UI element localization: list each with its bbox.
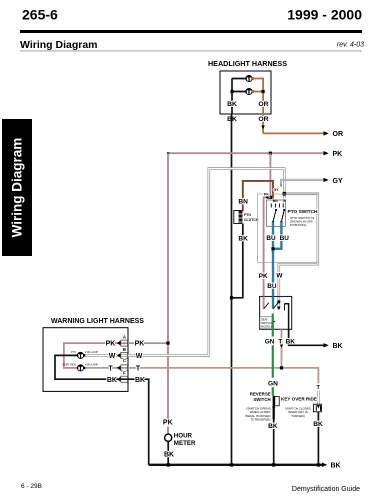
svg-text:PK: PK xyxy=(333,151,343,158)
arrow PK pin tick xyxy=(265,196,268,200)
arrow GY margin xyxy=(324,178,329,182)
svg-text:Wiring Diagram: Wiring Diagram xyxy=(10,138,25,238)
arrow BK pin xyxy=(117,377,121,381)
lamp warning 2 xyxy=(77,364,85,371)
svg-text:6 - 29B: 6 - 29B xyxy=(21,483,42,490)
svg-text:BK: BK xyxy=(227,101,237,108)
wire GN seat output xyxy=(272,329,274,336)
svg-text:GN: GN xyxy=(265,338,275,345)
wire BK key override to bus xyxy=(317,412,319,465)
wire PK warning pigtail xyxy=(129,342,168,344)
svg-text:OR: OR xyxy=(258,116,268,123)
arrow OR margin xyxy=(324,131,329,135)
node PK branch junction xyxy=(269,152,272,155)
svg-text:Demystification Guide: Demystification Guide xyxy=(292,486,360,493)
arrow PK margin xyxy=(324,151,329,155)
svg-text:REVERSE: REVERSE xyxy=(250,391,271,396)
svg-text:PTO: PTO xyxy=(244,213,251,217)
svg-text:BK: BK xyxy=(135,377,145,384)
svg-text:PK: PK xyxy=(264,193,269,197)
svg-text:MODULE: MODULE xyxy=(261,324,273,328)
node bus hour meter xyxy=(167,463,170,466)
arrow T seat tick xyxy=(280,345,283,348)
node PK pin junction xyxy=(269,196,272,199)
arrow OR down tick xyxy=(261,126,265,130)
svg-text:CLUTCH: CLUTCH xyxy=(244,218,259,222)
node bus main BK xyxy=(230,463,233,466)
svg-text:OR: OR xyxy=(258,101,268,108)
node T junction xyxy=(280,366,283,369)
svg-text:C: C xyxy=(123,358,126,363)
lamp warning 1 xyxy=(77,352,85,359)
svg-text:BK: BK xyxy=(268,423,278,430)
svg-text:HOUR: HOUR xyxy=(174,433,193,440)
svg-text:W: W xyxy=(109,353,116,360)
svg-text:rev. 4-03: rev. 4-03 xyxy=(337,42,364,49)
wire BK inside seat box xyxy=(285,304,289,330)
wire PK elbow to seat xyxy=(264,197,271,296)
arrow W pin xyxy=(117,353,121,357)
wire W inside warning harness xyxy=(84,354,129,356)
connector pin C xyxy=(121,358,128,371)
node W junction xyxy=(282,192,286,196)
wire BK warning to bus xyxy=(129,379,149,465)
wire BU right xyxy=(273,222,281,249)
svg-text:PK: PK xyxy=(163,419,173,426)
label reverse switch note xyxy=(245,407,271,422)
svg-text:BN: BN xyxy=(273,199,279,203)
svg-text:F: F xyxy=(123,370,126,375)
svg-text:265-6: 265-6 xyxy=(22,7,58,23)
svg-text:BN: BN xyxy=(238,199,248,206)
seat switch arm 1 xyxy=(264,303,269,309)
seat module label box xyxy=(260,317,273,329)
PTO switch arm 1 xyxy=(272,209,277,223)
lamp headlight 1 xyxy=(245,75,253,82)
svg-text:BK: BK xyxy=(238,235,248,242)
svg-text:PK: PK xyxy=(259,273,268,280)
wire GY to margin xyxy=(281,180,324,187)
wire BK ground bus xyxy=(149,464,322,466)
svg-text:PTO SWITCH: PTO SWITCH xyxy=(288,209,319,215)
svg-text:GN: GN xyxy=(268,380,278,387)
seat switch arm 2 xyxy=(273,303,278,309)
wire T into key override xyxy=(317,391,319,405)
wire PK horizontal to margin xyxy=(168,152,324,154)
wire BK reverse to bus xyxy=(273,420,275,465)
wire BU left xyxy=(272,222,274,297)
wire W warning lamp loop xyxy=(129,169,284,356)
arrow T pin xyxy=(117,366,121,370)
wire PK inside seat box xyxy=(263,297,265,309)
wire GN to reverse switch xyxy=(272,345,274,396)
wire PK inside warning harness xyxy=(64,343,129,368)
svg-text:#194 LAMP: #194 LAMP xyxy=(85,363,98,366)
svg-text:Wiring Diagram: Wiring Diagram xyxy=(20,39,98,51)
wire OR to right margin xyxy=(263,132,323,134)
svg-text:BK: BK xyxy=(331,463,341,470)
wire BK headlight feed xyxy=(232,79,246,115)
svg-text:WARNING LIGHT HARNESS: WARNING LIGHT HARNESS xyxy=(51,318,144,325)
node PK corner xyxy=(167,152,169,154)
svg-text:PK: PK xyxy=(106,341,116,348)
headlight harness box xyxy=(220,71,271,114)
svg-text:1999 - 2000: 1999 - 2000 xyxy=(287,7,362,23)
connector pin B xyxy=(121,347,128,358)
svg-text:A: A xyxy=(123,335,126,340)
node BU junction xyxy=(271,247,274,250)
seat switch arrow xyxy=(271,320,275,324)
wire BK inside warning harness xyxy=(55,355,129,379)
key override switch xyxy=(313,404,321,412)
wire T inside warning harness xyxy=(84,367,129,369)
svg-text:POSITION): POSITION) xyxy=(290,223,306,227)
header thick rule xyxy=(20,30,362,33)
svg-text:W: W xyxy=(136,353,143,360)
wire BK main vertical xyxy=(231,114,233,465)
svg-text:OVER RIDE: OVER RIDE xyxy=(62,363,76,366)
svg-text:BU: BU xyxy=(267,283,277,290)
wire BN clutch feed xyxy=(243,181,273,211)
PTO switch arm 2 xyxy=(280,209,285,223)
wire BK seat output to margin xyxy=(289,329,324,345)
svg-text:KEY OVER RIDE: KEY OVER RIDE xyxy=(281,396,317,401)
side tab banner xyxy=(2,119,32,256)
hour meter xyxy=(165,434,172,441)
svg-text:#194 LAMP: #194 LAMP xyxy=(85,351,98,354)
wire T horizontal run xyxy=(129,368,318,383)
wire PK hour meter stub xyxy=(167,427,169,435)
svg-text:PK: PK xyxy=(135,341,145,348)
PTO clutch coil xyxy=(234,211,243,224)
arrow PK pin xyxy=(117,341,121,345)
node W seat junction xyxy=(277,300,280,303)
PTO switch group box xyxy=(258,194,319,262)
svg-text:TURNED): TURNED) xyxy=(291,414,305,418)
node BK clutch junction xyxy=(230,296,233,299)
svg-text:B: B xyxy=(123,347,126,352)
wire BU inside seat box xyxy=(272,297,274,309)
reverse switch xyxy=(272,396,279,420)
wire PK drop to PTO switch xyxy=(269,153,271,197)
svg-text:SWITCH: SWITCH xyxy=(253,397,270,402)
lamp headlight 2 xyxy=(245,88,253,95)
svg-text:SWITCH: SWITCH xyxy=(261,321,272,325)
svg-text:GY: GY xyxy=(273,188,279,192)
label key override note xyxy=(285,407,311,418)
node bus reverse xyxy=(272,463,275,466)
node bus key override xyxy=(317,463,320,466)
warning light harness box xyxy=(43,328,128,392)
svg-text:BK: BK xyxy=(286,338,296,345)
svg-text:BK: BK xyxy=(333,343,343,350)
wire BK clutch return xyxy=(232,224,243,298)
svg-text:TO REVERSE): TO REVERSE) xyxy=(250,417,270,421)
arrow BK margin xyxy=(324,343,329,347)
node OR lamp junction xyxy=(262,90,265,93)
wire PK left vertical xyxy=(167,153,169,418)
svg-text:OR: OR xyxy=(333,131,344,138)
seat switch contact 4 xyxy=(284,304,286,311)
svg-text:BK: BK xyxy=(107,377,117,384)
wire T seat output xyxy=(281,329,283,368)
wire BK hour meter xyxy=(167,441,169,465)
wire OR lamp outputs xyxy=(252,79,263,134)
svg-text:W: W xyxy=(276,273,283,280)
PTO switch contact frame xyxy=(267,200,286,226)
connector pin A xyxy=(121,335,128,347)
node BK lamp junction xyxy=(230,90,233,93)
connector pin F xyxy=(121,370,128,382)
wire W seat loop xyxy=(279,194,318,310)
svg-text:HEADLIGHT HARNESS: HEADLIGHT HARNESS xyxy=(208,59,287,68)
arrow BK bus xyxy=(322,463,327,467)
svg-text:BU: BU xyxy=(280,235,290,242)
svg-text:T: T xyxy=(278,338,282,345)
PTO switch contact pins xyxy=(271,204,283,208)
svg-text:BK: BK xyxy=(313,421,323,428)
svg-text:T: T xyxy=(136,366,141,373)
wire GN inside seat box xyxy=(272,314,274,330)
svg-text:PTO: PTO xyxy=(71,351,76,354)
svg-text:METER: METER xyxy=(174,440,196,447)
seat switch box xyxy=(260,297,292,330)
svg-text:BU: BU xyxy=(266,235,276,242)
node PK warning junction xyxy=(166,342,169,345)
svg-text:GY: GY xyxy=(333,178,343,185)
svg-text:BK: BK xyxy=(164,452,174,459)
header thin rule xyxy=(20,50,362,53)
arrow W seat end xyxy=(277,307,281,311)
svg-text:SEAT: SEAT xyxy=(261,318,268,322)
label PTO SWITCH note xyxy=(290,216,314,227)
svg-text:T: T xyxy=(108,365,113,372)
